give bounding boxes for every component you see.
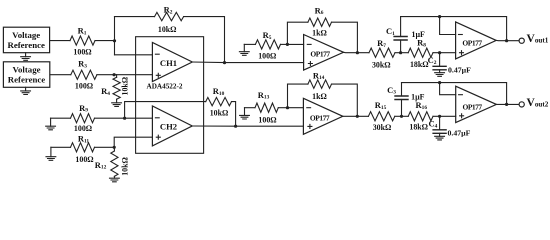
resistor R16 xyxy=(402,100,433,131)
wire R3 to node B xyxy=(97,74,114,76)
junction R2/CH1 output xyxy=(223,61,226,64)
ground (under VR2) xyxy=(21,87,31,94)
resistor R5 xyxy=(244,30,287,61)
svg-text:100Ω: 100Ω xyxy=(258,115,276,124)
resistor R7 xyxy=(369,38,401,70)
ground (left of R11) xyxy=(46,147,56,160)
ground (left of R13) xyxy=(240,108,250,119)
junction R14/U4 output xyxy=(356,115,359,118)
junction U5 feedback tap xyxy=(438,15,441,18)
node G (junction R11/R12) xyxy=(113,146,116,149)
resistor R12 xyxy=(95,147,130,178)
wire VR2 to R3 xyxy=(50,74,71,76)
svg-text:ADA4522-2: ADA4522-2 xyxy=(147,82,183,90)
resistor R2 feedback xyxy=(115,5,225,63)
junction R6/U3 output xyxy=(356,51,359,54)
svg-text:Reference: Reference xyxy=(8,75,46,85)
op-amp U6 OP177 xyxy=(456,86,497,122)
svg-text:10kΩ: 10kΩ xyxy=(210,109,229,118)
resistor R3 xyxy=(71,59,97,91)
svg-text:CH2: CH2 xyxy=(160,121,177,131)
wire node C to OP177 U3 inverting input xyxy=(287,43,304,45)
svg-text:Reference: Reference xyxy=(7,40,45,50)
resistor R11 xyxy=(51,134,95,164)
svg-text:OP177: OP177 xyxy=(310,114,330,123)
node D (junction R7/R8/C1) xyxy=(399,51,402,54)
node E (junction R8/C2/U5 +) xyxy=(438,51,441,54)
resistor R6 feedback xyxy=(287,5,357,52)
svg-text:1kΩ: 1kΩ xyxy=(312,29,327,38)
node H (junction R13/R14/U4 -) xyxy=(286,106,289,109)
junction U5 output/feedback xyxy=(505,39,508,42)
svg-text:OP177: OP177 xyxy=(463,102,483,111)
wire node H to U4 inverting input xyxy=(288,107,304,109)
svg-text:0.47µF: 0.47µF xyxy=(448,129,471,138)
ground (under C4) xyxy=(435,136,445,140)
resistor R15 xyxy=(368,100,401,132)
wire VR1 to R1 xyxy=(50,40,70,42)
node J (junction R16/C4/U6 +) xyxy=(438,115,441,118)
svg-text:10kΩ: 10kΩ xyxy=(158,25,177,34)
svg-text:Voltage: Voltage xyxy=(12,65,40,75)
capacitor C1 xyxy=(386,17,425,53)
svg-text:Voltage: Voltage xyxy=(12,30,40,40)
wire R1 to node A xyxy=(95,40,115,42)
wire R8 to node E xyxy=(433,52,456,54)
wire CH1 output xyxy=(192,61,303,64)
svg-text:OP177: OP177 xyxy=(462,38,482,47)
wire CH2 output xyxy=(192,125,303,127)
resistor R4 xyxy=(101,75,130,103)
node C (junction R5/R6/OP177 -) xyxy=(286,43,289,46)
resistor R14 feedback xyxy=(288,70,358,116)
resistor R9 xyxy=(51,103,95,133)
wire C1 top to U5 output loop xyxy=(401,17,507,41)
wire C3 top to U6 output loop xyxy=(402,83,507,105)
node A (junction R1/R2/CH1-) xyxy=(113,39,116,42)
wire U6 output xyxy=(496,103,519,105)
ground (under VR1) xyxy=(21,53,31,61)
ground (under C2) xyxy=(435,73,445,77)
node B (junction R3/R4) xyxy=(113,73,116,76)
voltage reference VR2 xyxy=(3,62,49,88)
wire feedback tap to U5 inverting input xyxy=(440,17,456,35)
wire R11 to node G xyxy=(95,146,115,148)
op-amp U3 OP177 xyxy=(304,35,344,71)
svg-text:100Ω: 100Ω xyxy=(75,81,93,90)
capacitor C3 xyxy=(387,83,425,117)
svg-text:10kΩ: 10kΩ xyxy=(120,157,129,176)
wire node F to CH2 inverting input xyxy=(125,117,153,119)
capacitor C2 xyxy=(428,53,471,75)
svg-text:100Ω: 100Ω xyxy=(74,124,92,133)
ground (under R4) xyxy=(112,103,122,107)
svg-text:100Ω: 100Ω xyxy=(258,52,276,61)
wire node B to CH1 + input xyxy=(114,74,152,76)
ground (left of R5) xyxy=(239,44,249,55)
wire R16 to node J xyxy=(433,115,456,117)
resistor R10 feedback xyxy=(125,86,236,126)
wire U5 output xyxy=(496,39,519,41)
resistor R13 xyxy=(245,90,288,125)
wire U3 output xyxy=(344,51,370,53)
svg-text:30kΩ: 30kΩ xyxy=(373,123,392,132)
node F (junction R9/R10/CH2 -) xyxy=(123,117,126,120)
terminal Vout2 xyxy=(519,102,524,107)
svg-text:1kΩ: 1kΩ xyxy=(312,92,327,101)
IC box ADA4522-2 xyxy=(136,37,204,154)
voltage reference VR1 xyxy=(3,27,49,53)
resistor R1 xyxy=(70,26,95,57)
svg-text:30kΩ: 30kΩ xyxy=(372,60,391,69)
junction R10/CH2 output xyxy=(234,125,237,128)
wire R9 to node F xyxy=(95,117,125,119)
svg-text:10kΩ: 10kΩ xyxy=(121,77,130,96)
svg-text:100Ω: 100Ω xyxy=(75,155,93,164)
svg-text:OP177: OP177 xyxy=(310,49,330,58)
wire node G to CH2 + input xyxy=(114,137,152,147)
wire to CH1 inverting input xyxy=(115,54,153,56)
junction U6 output/feedback xyxy=(505,103,508,106)
op-amp U4 OP177 xyxy=(303,98,342,134)
wire feedback tap to U6 inverting input xyxy=(440,83,456,95)
svg-text:CH1: CH1 xyxy=(160,58,177,68)
wire U4 output xyxy=(343,115,369,117)
svg-text:18kΩ: 18kΩ xyxy=(410,60,429,69)
junction U6 feedback tap xyxy=(438,81,441,84)
op-amp CH2 xyxy=(152,106,192,146)
capacitor C4 xyxy=(428,116,470,137)
node I (junction R15/R16/C3) xyxy=(400,115,403,118)
terminal Vout1 xyxy=(519,38,524,43)
wire node A vertical xyxy=(114,17,116,55)
ground (under R12) xyxy=(110,178,120,182)
svg-text:100Ω: 100Ω xyxy=(73,48,91,57)
resistor R8 xyxy=(401,38,433,69)
svg-text:18kΩ: 18kΩ xyxy=(409,122,428,131)
op-amp CH1 xyxy=(152,43,192,82)
svg-text:0.47µF: 0.47µF xyxy=(448,66,471,75)
op-amp U5 OP177 xyxy=(456,22,497,59)
ground (left of R9) xyxy=(46,118,56,130)
